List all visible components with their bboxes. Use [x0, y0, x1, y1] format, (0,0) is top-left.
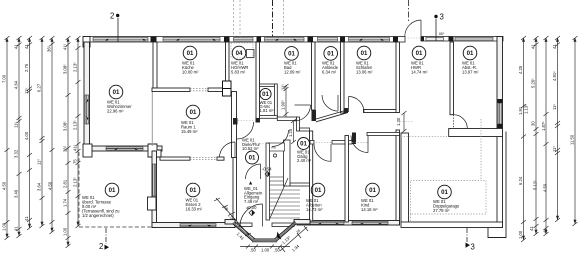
post G-WC west lower — [256, 118, 260, 123]
dotted lintel over garage opening — [401, 135, 449, 137]
wall post corner corridor — [312, 110, 317, 121]
window W4 top Bad — [265, 37, 305, 41]
svg-text:04: 04 — [236, 50, 243, 57]
wall hall west — [232, 92, 237, 158]
pilaster bottom-left of Wohnzimmer — [83, 144, 92, 157]
window W2 top Kueche — [163, 37, 220, 41]
svg-text:15.49 m²: 15.49 m² — [181, 129, 198, 134]
section dashed line pair at HOHWR top — [234, 0, 241, 37]
wall Flur/Abstellraum — [450, 42, 454, 115]
svg-text:41: 41 — [552, 44, 557, 49]
svg-text:01: 01 — [416, 50, 423, 57]
shaft boxes beside divider — [223, 81, 232, 96]
stairwell west wall — [266, 143, 270, 220]
right dimension chain line R2 — [534, 36, 539, 236]
door D5 Diele to Essen — [220, 142, 236, 158]
svg-text:2.13⁵: 2.13⁵ — [73, 177, 78, 187]
left dimension chain line L3 — [27, 36, 32, 230]
svg-text:6.24: 6.24 — [518, 176, 523, 185]
bay west stub wall — [225, 220, 235, 225]
wall right exterior lower (garage east) — [497, 132, 503, 228]
svg-text:7.49 m²: 7.49 m² — [244, 199, 259, 204]
right dimension chain line R3 — [544, 36, 549, 236]
svg-text:14.74 m²: 14.74 m² — [411, 70, 428, 75]
svg-text:36⁵: 36⁵ — [63, 145, 68, 152]
wall Kind north — [367, 133, 400, 136]
svg-text:4.91⁵: 4.91⁵ — [552, 71, 557, 81]
pilaster on west wall of Essen — [148, 197, 157, 210]
room label G-WC — [260, 88, 275, 113]
svg-text:4.50: 4.50 — [543, 183, 548, 192]
door D7 entrance bay — [240, 204, 263, 227]
svg-text:1.90⁰: 1.90⁰ — [281, 100, 286, 110]
svg-text:1.00: 1.00 — [2, 222, 7, 231]
svg-text:11⁰: 11⁰ — [552, 146, 557, 152]
svg-text:1.00: 1.00 — [518, 230, 523, 239]
left dimension chain line L4 — [40, 36, 45, 228]
window W13 bottom Arbeiten — [310, 221, 344, 224]
svg-text:14.16 m²: 14.16 m² — [361, 207, 378, 212]
wall corridor diagonal — [316, 110, 347, 122]
svg-text:3: 3 — [440, 13, 444, 22]
svg-text:30: 30 — [531, 121, 536, 126]
room label Essen 2 — [186, 183, 203, 211]
right dimension chain line R4 — [555, 36, 560, 222]
door D2 Abstellraum — [454, 115, 468, 129]
svg-text:10.52 m²: 10.52 m² — [242, 146, 259, 151]
window W11 Essen bottom — [180, 224, 216, 227]
svg-text:36⁵: 36⁵ — [47, 45, 52, 52]
bay canted wall right — [275, 222, 297, 242]
svg-text:11⁰: 11⁰ — [37, 159, 42, 165]
section marker 3 bottom — [466, 228, 471, 248]
bay dim labels — [222, 204, 301, 253]
wall HOHWR east — [256, 42, 260, 122]
interior dim line corridor 7.30 — [402, 111, 407, 133]
bay inner wall right of door — [272, 223, 294, 227]
door D13 corridor to stair hall — [272, 130, 289, 147]
chain end arrowheads — [6, 38, 577, 247]
door D4 Ankleide — [322, 95, 338, 111]
svg-text:6.34 m²: 6.34 m² — [322, 70, 337, 75]
svg-text:41: 41 — [543, 228, 548, 233]
wall Kueche bottom right — [208, 88, 230, 92]
svg-text:27.79 m²: 27.79 m² — [433, 208, 450, 213]
svg-text:41: 41 — [24, 44, 29, 49]
svg-text:±0.00: ±0.00 — [246, 205, 257, 210]
pilaster chimney at Wohnzimmer bottom right — [148, 144, 161, 157]
svg-text:13.06 m²: 13.06 m² — [356, 70, 373, 75]
door D6 hall lower — [246, 164, 261, 179]
wall bottom of Abstellraum thick — [449, 129, 503, 137]
window W6 top Schlafen — [349, 37, 390, 41]
svg-text:6.27: 6.27 — [37, 83, 42, 92]
wall bottom exterior (Arbeiten/Kind) — [297, 221, 400, 226]
svg-text:41: 41 — [24, 216, 29, 221]
wall Kueche/HOHWR divider — [226, 42, 230, 81]
svg-text:Wä.: Wä. — [271, 146, 277, 150]
svg-text:75: 75 — [73, 159, 78, 164]
wall corridor north of hall (east of G-WC) — [277, 117, 296, 121]
svg-text:3.08⁵: 3.08⁵ — [63, 121, 68, 131]
svg-text:11⁵: 11⁵ — [24, 88, 29, 94]
terrace dashed outline — [79, 152, 152, 227]
wall left lower exterior (Essen 2 west) — [152, 151, 157, 228]
interior dim line stair top 1.25 — [291, 119, 296, 144]
room label Terrasse — [82, 183, 120, 218]
right dim labels — [518, 44, 575, 239]
svg-text:1.87⁵: 1.87⁵ — [541, 121, 546, 131]
window W14 bottom Kind — [352, 221, 388, 224]
stair treads lower — [270, 190, 301, 218]
wall Kueche bottom dotted opening — [190, 89, 208, 91]
stair run diagonal — [270, 178, 288, 218]
door marker triangle 1 at bay — [277, 232, 282, 240]
svg-text:41: 41 — [14, 44, 19, 49]
svg-text:1.30: 1.30 — [396, 117, 401, 126]
room label Abstellraum — [462, 46, 479, 74]
door D11 corridor to Diele — [237, 122, 254, 139]
right dimension chain line R1 — [521, 36, 526, 242]
room label Kueche — [182, 46, 199, 74]
label Eingang — [244, 186, 263, 204]
wall top exterior right of entrance door — [421, 37, 503, 42]
svg-text:41: 41 — [14, 226, 19, 231]
svg-text:01: 01 — [109, 187, 116, 194]
window W12 right wall — [498, 103, 501, 124]
wall interior Wohnzimmer/Kueche — [153, 42, 157, 88]
left dimension chain line L1 — [5, 36, 10, 240]
svg-text:01: 01 — [262, 91, 269, 98]
svg-text:4.25: 4.25 — [518, 65, 523, 74]
bay diagonal dim line left — [214, 198, 251, 236]
svg-text:7.00: 7.00 — [2, 74, 7, 83]
wall hall east upper (stair right room) — [310, 131, 313, 221]
room label Diele/Flur — [242, 138, 261, 165]
svg-text:4.00: 4.00 — [24, 131, 29, 140]
svg-text:2.13⁵: 2.13⁵ — [73, 62, 78, 72]
stairwell east wall — [284, 140, 291, 186]
svg-text:4.50: 4.50 — [2, 181, 7, 190]
svg-text:3.49: 3.49 — [14, 189, 19, 198]
svg-text:41: 41 — [529, 226, 534, 231]
wall top exterior left of entrance door — [84, 37, 405, 43]
svg-text:10.00 m²: 10.00 m² — [182, 70, 199, 75]
window W7 top right of door — [426, 37, 444, 40]
svg-text:2.75: 2.75 — [24, 63, 29, 72]
right dimension chain line R5 — [573, 36, 578, 226]
svg-text:1.00: 1.00 — [261, 248, 270, 253]
wall corridor top horizontal — [364, 110, 398, 113]
svg-text:01: 01 — [190, 109, 197, 116]
room label Doppelgarage — [433, 185, 460, 213]
svg-text:.50: .50 — [250, 248, 256, 253]
level marker diamond stair — [265, 172, 270, 177]
left dim labels — [2, 43, 78, 236]
svg-text:01: 01 — [288, 51, 295, 58]
triangle marker above Eingang text — [249, 181, 252, 184]
left dimension chain line L6 — [66, 36, 71, 248]
room label Kind — [361, 183, 379, 212]
svg-text:.50: .50 — [274, 248, 280, 253]
room label small Flur 2.40 — [297, 138, 312, 164]
wall stub down to small room — [297, 117, 300, 131]
room label Arbeiten — [306, 183, 325, 212]
post hall west — [233, 118, 238, 125]
room label Ankleide — [322, 47, 339, 75]
bay inner wall left of door — [235, 223, 252, 227]
svg-text:3.64: 3.64 — [37, 182, 42, 191]
bay east stub wall — [294, 220, 310, 225]
room label Flur — [411, 46, 428, 74]
svg-text:01: 01 — [369, 187, 376, 194]
svg-text:2.13⁵: 2.13⁵ — [73, 120, 78, 130]
wall stub Kind north left — [352, 133, 356, 145]
svg-text:01: 01 — [315, 187, 322, 194]
svg-text:01: 01 — [467, 50, 474, 57]
section dashed x283 — [283, 0, 285, 37]
svg-text:.88⁵: .88⁵ — [438, 32, 445, 36]
left dimension chain line L7 — [76, 36, 81, 228]
svg-text:5.26⁵: 5.26⁵ — [531, 78, 536, 88]
section marker 2 top — [116, 14, 119, 42]
level marker diamond entrance — [249, 210, 255, 216]
window Essen west wall — [153, 164, 156, 196]
door D3 Bad — [295, 105, 311, 121]
garage dotted area — [411, 119, 487, 222]
svg-text:4.50: 4.50 — [48, 181, 53, 190]
wall garage west thick — [401, 133, 409, 224]
window W5 top Ankleide — [318, 37, 338, 41]
svg-text:3.08⁵: 3.08⁵ — [63, 64, 68, 74]
svg-text:2.40 m²: 2.40 m² — [297, 158, 312, 163]
svg-text:16.33 m²: 16.33 m² — [186, 207, 203, 212]
wall thin Wohnzimmer/Raum1 — [151, 88, 153, 146]
svg-text:11.50: 11.50 — [570, 134, 575, 145]
room label Raum 1 — [181, 105, 200, 134]
svg-text:01: 01 — [441, 189, 448, 196]
svg-text:1/2 angerechnet): 1/2 angerechnet) — [82, 213, 114, 218]
post at Schlafen door — [344, 108, 348, 113]
wall left exterior — [84, 42, 90, 151]
svg-text:-0.54: -0.54 — [262, 167, 272, 172]
bay bottom dim line — [240, 245, 290, 249]
svg-text:01: 01 — [300, 141, 307, 148]
pilaster top-left corner — [83, 37, 90, 48]
svg-text:41⁵: 41⁵ — [63, 43, 68, 50]
dotted opening Raum1/Essen — [190, 158, 217, 160]
wall Essen 2 bottom exterior — [152, 223, 235, 228]
svg-text:01: 01 — [113, 89, 120, 96]
svg-text:01: 01 — [249, 155, 256, 162]
room label Schlafen — [356, 46, 373, 74]
wall Schlafen/Flur — [396, 42, 400, 113]
wall posts in top wall — [151, 37, 503, 43]
wall Kind east lower — [396, 130, 400, 225]
stair top cupboard — [270, 143, 285, 151]
wall right exterior upper — [497, 37, 503, 132]
svg-text:01: 01 — [190, 187, 197, 194]
section marker 2 bottom — [105, 228, 110, 250]
wall Wohnzimmer bottom — [84, 146, 162, 151]
svg-text:13.97 m²: 13.97 m² — [462, 70, 479, 75]
svg-text:22.96 m²: 22.96 m² — [107, 109, 124, 114]
svg-text:5.12⁵: 5.12⁵ — [533, 180, 538, 190]
svg-text:41: 41 — [531, 44, 536, 49]
stair column circle — [273, 154, 276, 157]
stair treads upper — [270, 177, 284, 185]
svg-text:12.09 m²: 12.09 m² — [284, 70, 301, 75]
window W9 left wall Wohnzimmer — [85, 95, 88, 124]
svg-text:1.25: 1.25 — [288, 128, 293, 137]
window W3 top HO/HWR — [234, 37, 254, 41]
interior dim labels — [281, 84, 401, 137]
door D9 Kind — [351, 136, 368, 153]
svg-text:01: 01 — [327, 51, 334, 58]
svg-text:1.91: 1.91 — [518, 106, 523, 115]
svg-text:1.13⁵: 1.13⁵ — [524, 104, 529, 114]
wall Raum1/Essen divider right part — [217, 157, 224, 160]
section dashdot x408 above door — [408, 0, 410, 21]
wall Bad/Ankleide — [312, 42, 316, 110]
left dimension chain line L2 — [17, 36, 22, 238]
svg-text:1.00: 1.00 — [63, 227, 68, 236]
section dashdot line x272 — [272, 0, 274, 37]
wall Raum1/Essen divider — [160, 157, 190, 160]
wall Arbeiten/Kind divider — [345, 136, 349, 223]
room label HO/HWR with dotted box — [231, 43, 254, 75]
door D1 main entrance top — [405, 20, 421, 37]
dotted corridor guide lines — [238, 38, 421, 144]
svg-text:2.81: 2.81 — [63, 179, 68, 188]
door D12 corridor to Schlafen — [349, 97, 365, 113]
svg-text:3: 3 — [471, 243, 475, 252]
bay canted wall left — [233, 222, 256, 242]
wall Kueche bottom left — [152, 88, 190, 92]
section marker 3 top — [434, 15, 437, 41]
room label Bad — [284, 47, 301, 75]
svg-text:14.73 m²: 14.73 m² — [306, 207, 323, 212]
G-WC box walls — [260, 84, 278, 118]
wall small room south — [290, 183, 310, 186]
svg-text:41⁵: 41⁵ — [73, 144, 78, 151]
svg-text:11⁵: 11⁵ — [552, 104, 557, 110]
door D8 Arbeiten — [314, 144, 331, 161]
window W8 top Abstellraum — [455, 37, 493, 40]
svg-text:2: 2 — [110, 12, 114, 21]
wall corridor south (Arbeiten north) — [310, 141, 352, 145]
bay diagonal dim line right — [280, 226, 308, 252]
svg-text:01: 01 — [187, 50, 194, 57]
svg-text:4.64: 4.64 — [14, 80, 19, 89]
room label Wohnzimmer — [107, 85, 132, 113]
wall Ankleide/Schlafen — [341, 42, 345, 113]
interior dim line G-WC — [284, 84, 289, 117]
svg-text:3.32: 3.32 — [14, 149, 19, 158]
window W1 top Wohnzimmer — [93, 37, 148, 41]
bay bottom wall — [252, 239, 277, 242]
garage east outer offset line — [488, 132, 506, 238]
left dimension chain line L5 — [50, 36, 55, 234]
wall small room north — [300, 128, 310, 131]
window W10 Wohnzimmer bottom — [106, 147, 143, 150]
svg-text:01: 01 — [361, 50, 368, 57]
svg-text:1.81 m²: 1.81 m² — [260, 108, 275, 113]
svg-text:1.74: 1.74 — [63, 198, 68, 207]
svg-text:5.83 m²: 5.83 m² — [231, 70, 246, 75]
svg-text:11⁵: 11⁵ — [281, 84, 286, 90]
wall garage bottom — [401, 222, 503, 228]
svg-text:2: 2 — [99, 242, 103, 251]
svg-text:11⁵: 11⁵ — [14, 122, 19, 128]
